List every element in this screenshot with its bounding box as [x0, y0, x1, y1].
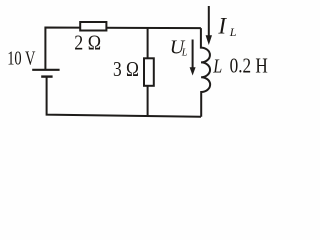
svg-text:I: I	[217, 13, 227, 38]
battery 10 V: long plate	[32, 69, 59, 71]
svg-text:0.2 H: 0.2 H	[230, 54, 268, 78]
wire: middle branch lower segment	[147, 86, 149, 116]
battery 10 V: short plate	[41, 75, 52, 77]
resistor R1 2 ohm (horizontal box on top wire)	[80, 22, 106, 31]
resistor R2 3 ohm (vertical box)	[144, 58, 154, 86]
wire: bottom wire from battery to bottom-right corner	[47, 77, 201, 117]
svg-text:L: L	[212, 56, 222, 78]
inductor L with coil (right branch)	[201, 28, 210, 117]
voltage arrow U_L	[192, 40, 194, 69]
wire: middle branch upper segment	[147, 28, 149, 59]
svg-text:3 Ω: 3 Ω	[113, 57, 139, 81]
svg-text:10 V: 10 V	[7, 48, 36, 70]
svg-text:2 Ω: 2 Ω	[74, 30, 101, 54]
svg-text:L: L	[181, 48, 188, 59]
wire: top wire from left corner to right corner	[45, 28, 201, 70]
current arrow I_L	[208, 6, 210, 37]
svg-text:L: L	[229, 25, 237, 39]
